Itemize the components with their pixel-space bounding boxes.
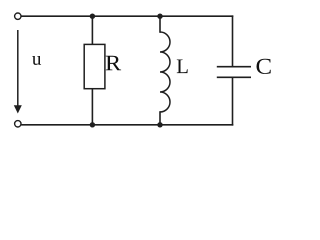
wire bottom horizontal (21, 124, 232, 126)
wire right drop to capacitor (232, 16, 234, 66)
node dot top inductor (157, 14, 162, 19)
node dot bottom resistor (90, 122, 95, 127)
capacitor C top plate (217, 66, 251, 68)
resistor R body (84, 44, 105, 88)
wire resistor bottom lead (91, 89, 93, 125)
node dot top resistor (90, 14, 95, 19)
wire top horizontal (21, 15, 232, 17)
label R (106, 56, 121, 70)
label L (177, 59, 188, 73)
label u (32, 56, 41, 65)
wire inductor top lead (159, 16, 161, 32)
arrow u head (14, 105, 22, 113)
node dot bottom inductor (157, 122, 162, 127)
wire inductor bottom lead (159, 112, 161, 125)
terminal bottom-left (15, 121, 21, 127)
terminal top-left (15, 13, 21, 19)
arrow u shaft (17, 30, 19, 106)
label C (257, 59, 271, 74)
wire capacitor bottom to bottom rail (232, 78, 234, 125)
wire resistor top lead (91, 16, 93, 44)
capacitor C bottom plate (217, 76, 251, 78)
inductor L coil (160, 32, 170, 112)
